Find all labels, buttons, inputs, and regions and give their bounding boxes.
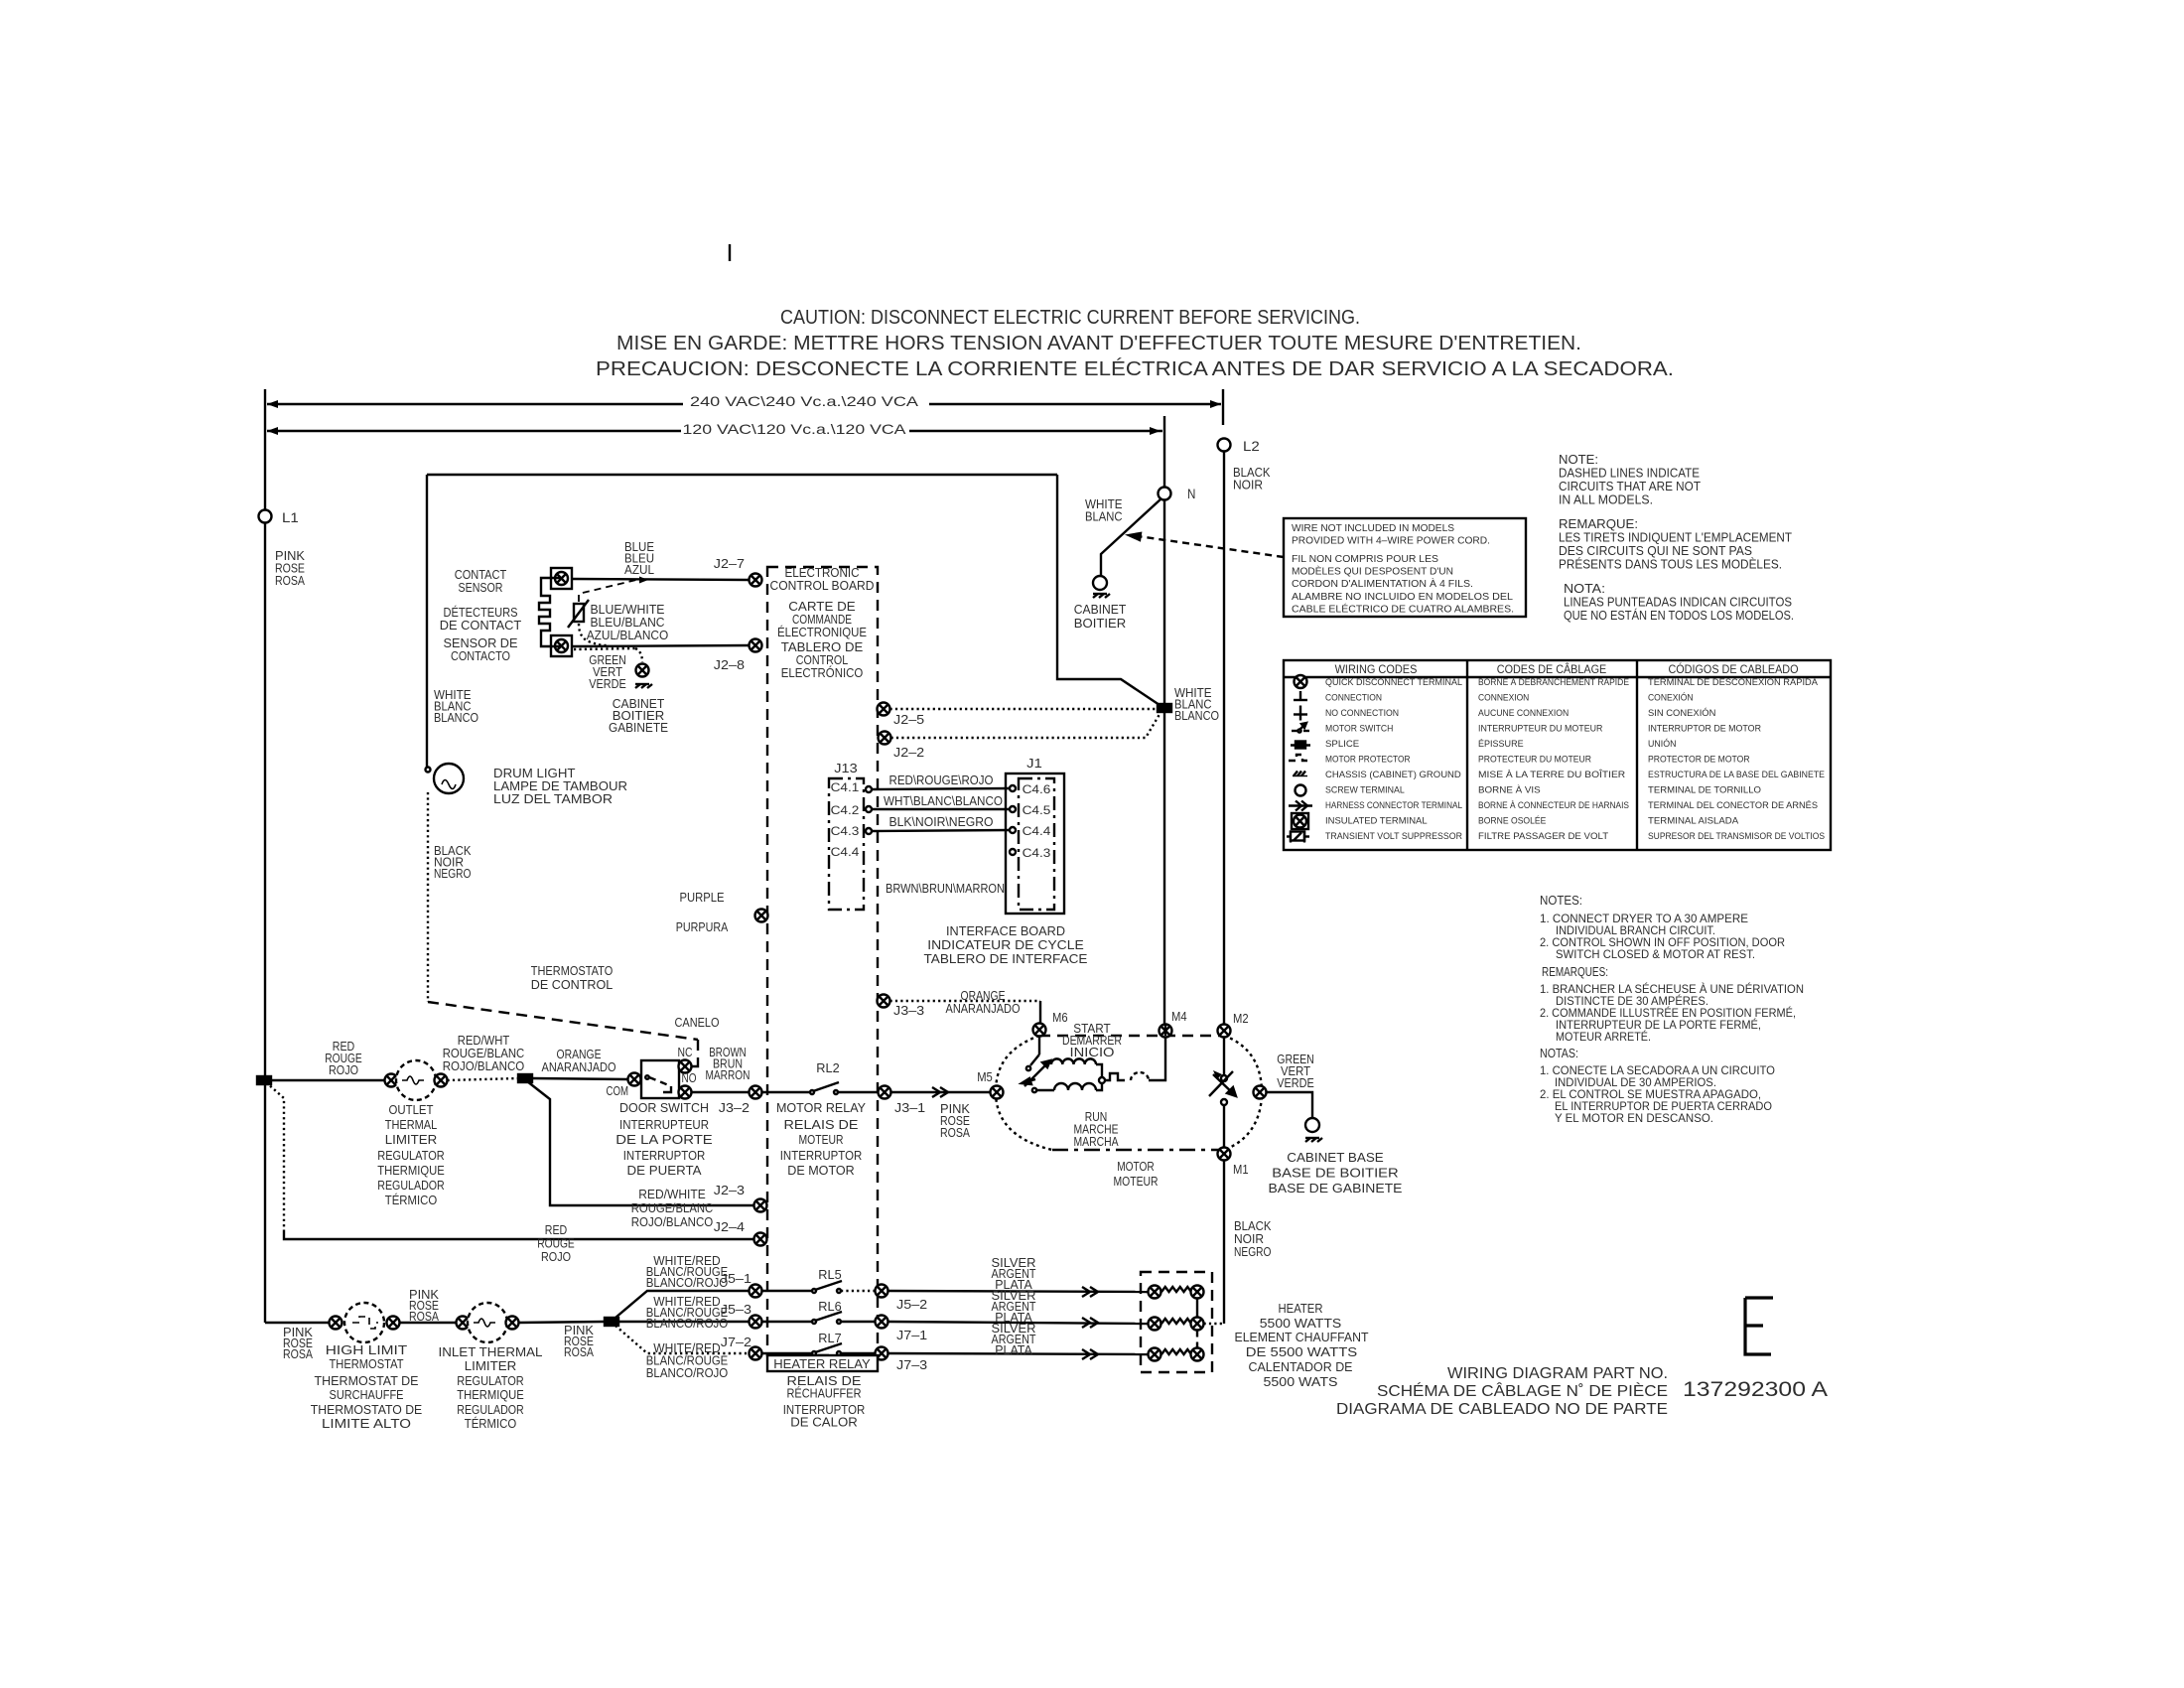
svg-text:BRWN\BRUN\MARRON: BRWN\BRUN\MARRON: [886, 882, 1005, 896]
svg-text:HARNESS CONNECTOR TERMINAL: HARNESS CONNECTOR TERMINAL: [1325, 800, 1462, 811]
terminal heater 2 left: [1149, 1318, 1161, 1331]
table symbol transient volt suppressor: [1287, 831, 1309, 843]
table symbol insulated terminal: [1292, 813, 1308, 829]
svg-text:NC: NC: [678, 1046, 693, 1059]
svg-text:ROJO: ROJO: [329, 1063, 358, 1077]
harness arrow (M5 wire): [932, 1087, 948, 1097]
svg-text:THERMOSTAT DE: THERMOSTAT DE: [315, 1374, 419, 1388]
svg-text:SCHÉMA DE CÂBLAGE N˚ DE P: SCHÉMA DE CÂBLAGE N˚ DE PIÈCE: [1377, 1381, 1668, 1400]
svg-text:ROSA: ROSA: [564, 1345, 595, 1359]
svg-text:MARRON: MARRON: [706, 1068, 751, 1082]
protector coil dashed: [1131, 1072, 1149, 1080]
svg-text:DE CONTACT: DE CONTACT: [440, 619, 522, 633]
svg-text:MOTOR PROTECTOR: MOTOR PROTECTOR: [1325, 755, 1411, 766]
svg-text:DE PUERTA: DE PUERTA: [627, 1164, 703, 1178]
relay RL7: [812, 1343, 842, 1355]
svg-text:RED\ROUGE\ROJO: RED\ROUGE\ROJO: [889, 774, 994, 787]
svg-text:NOIR: NOIR: [1233, 479, 1263, 492]
svg-text:RELAIS DE: RELAIS DE: [784, 1118, 859, 1132]
pin J1-3: [1010, 827, 1016, 833]
arrow on blue wire: [639, 577, 648, 584]
terminal J2-8: [750, 639, 762, 652]
svg-text:MOTEUR: MOTEUR: [799, 1133, 844, 1147]
terminal J2-7: [750, 574, 762, 587]
run contact: [1032, 1088, 1036, 1092]
connector J13 box: [829, 778, 864, 910]
svg-text:PROTECTOR DE MOTOR: PROTECTOR DE MOTOR: [1648, 755, 1750, 766]
svg-text:ROSA: ROSA: [409, 1310, 440, 1324]
svg-text:ROUGE/BLANC: ROUGE/BLANC: [631, 1201, 714, 1215]
terminal J2-4: [754, 1233, 767, 1246]
svg-text:BORNE OSOLÉE: BORNE OSOLÉE: [1478, 816, 1546, 827]
svg-text:PURPLE: PURPLE: [680, 891, 725, 905]
terminal J3-3: [878, 995, 890, 1008]
wire black M1 to heater: [1223, 1160, 1225, 1325]
table symbol screw terminal: [1296, 785, 1306, 796]
wire L1 to HLT: [265, 1322, 330, 1324]
svg-text:C4.2: C4.2: [831, 803, 860, 817]
svg-text:ROUGE: ROUGE: [537, 1237, 575, 1251]
svg-text:TERMINAL DEL CONECTOR DE ARNÉS: TERMINAL DEL CONECTOR DE ARNÉS: [1648, 800, 1818, 811]
svg-text:GABINETE: GABINETE: [609, 721, 668, 735]
svg-text:BLANCO: BLANCO: [434, 711, 478, 725]
svg-text:DRUM LIGHT: DRUM LIGHT: [493, 767, 576, 780]
centrifugal contact bottom: [1221, 1099, 1227, 1105]
wire red dotted from L1 splice: [266, 1082, 284, 1231]
svg-text:HEATER RELAY: HEATER RELAY: [773, 1357, 871, 1371]
terminal N: [1159, 488, 1171, 500]
table symbol chassis ground: [1293, 772, 1307, 776]
svg-text:REMARQUE:: REMARQUE:: [1559, 517, 1638, 531]
svg-text:CONTROL BOARD: CONTROL BOARD: [770, 579, 875, 593]
svg-text:LINEAS PUNTEADAS INDICAN CIRCU: LINEAS PUNTEADAS INDICAN CIRCUITOS: [1564, 596, 1792, 610]
svg-text:C4.6: C4.6: [1023, 782, 1051, 796]
svg-text:DE MOTOR: DE MOTOR: [787, 1164, 855, 1178]
drum light: [434, 764, 464, 793]
svg-text:J3–3: J3–3: [893, 1003, 924, 1018]
svg-text:ELECTRÓNICO: ELECTRÓNICO: [781, 665, 864, 680]
terminal J7-2: [750, 1347, 762, 1360]
svg-text:SWITCH CLOSED & MOTOR AT REST.: SWITCH CLOSED & MOTOR AT REST.: [1556, 947, 1755, 961]
splice white/N junction: [1158, 704, 1171, 712]
wire M2-M1 lower: [1223, 1105, 1225, 1148]
svg-text:INTERRUPTOR: INTERRUPTOR: [623, 1149, 706, 1163]
svg-text:SCREW TERMINAL: SCREW TERMINAL: [1325, 785, 1405, 796]
svg-text:TRANSIENT VOLT SUPPRESSOR: TRANSIENT VOLT SUPPRESSOR: [1325, 831, 1462, 842]
svg-text:J1: J1: [1026, 756, 1042, 771]
terminal heater 1 left: [1149, 1286, 1161, 1299]
svg-text:CAUTION: DISCONNECT ELECTRIC: CAUTION: DISCONNECT ELECTRIC CURRENT BEF…: [780, 307, 1360, 329]
terminal ITL right: [506, 1317, 519, 1330]
svg-text:PROVIDED WITH 4–WIRE POWER COR: PROVIDED WITH 4–WIRE POWER CORD.: [1292, 536, 1490, 547]
wire canelo dashed: [697, 1040, 699, 1064]
svg-text:J3–1: J3–1: [894, 1100, 925, 1115]
svg-text:PRECAUCION: DESCONECTE LA C: PRECAUCION: DESCONECTE LA CORRIENTE ELÉC…: [596, 357, 1674, 380]
svg-text:ÉLECTRONIQUE: ÉLECTRONIQUE: [777, 625, 867, 639]
cabinet screw terminal: [1093, 576, 1107, 590]
svg-text:5500 WATS: 5500 WATS: [1264, 1375, 1338, 1389]
svg-text:M4: M4: [1171, 1009, 1187, 1024]
svg-text:RED/WHITE: RED/WHITE: [638, 1188, 706, 1201]
terminal heater 3 right: [1191, 1348, 1204, 1361]
svg-text:DOOR SWITCH: DOOR SWITCH: [619, 1101, 709, 1115]
wire L1 bottom vertical: [264, 1080, 266, 1323]
splice heater branches: [605, 1318, 618, 1326]
connector J1 inner box: [1019, 778, 1054, 910]
svg-text:THERMIQUE: THERMIQUE: [457, 1388, 524, 1402]
svg-text:REMARQUES:: REMARQUES:: [1542, 965, 1608, 979]
wire heater link 1-2: [1196, 1299, 1198, 1318]
svg-text:CABLE ELÉCTRICO DE CUATRO ALAM: CABLE ELÉCTRICO DE CUATRO ALAMBRES.: [1292, 603, 1514, 616]
svg-text:MOTOR: MOTOR: [1117, 1160, 1155, 1174]
svg-text:NOTAS:: NOTAS:: [1540, 1047, 1578, 1060]
wire N top: [1163, 416, 1165, 488]
svg-text:MOTOR RELAY: MOTOR RELAY: [776, 1101, 867, 1115]
wire orange drop to M6: [1039, 1001, 1041, 1023]
svg-text:INDICATEUR DE CYCLE: INDICATEUR DE CYCLE: [927, 938, 1084, 952]
svg-text:DE CONTROL: DE CONTROL: [531, 978, 614, 992]
svg-text:MARCHA: MARCHA: [1074, 1135, 1120, 1149]
svg-text:N: N: [1187, 486, 1195, 501]
table symbol no connection: [1294, 706, 1307, 721]
wire N vertical: [1163, 500, 1165, 1030]
table symbol harness connector: [1289, 801, 1312, 811]
svg-text:DE 5500 WATTS: DE 5500 WATTS: [1246, 1345, 1358, 1359]
svg-text:NEGRO: NEGRO: [434, 867, 472, 881]
svg-text:ROSA: ROSA: [940, 1126, 971, 1140]
terminal J5-2: [876, 1285, 888, 1298]
svg-text:C4.3: C4.3: [1023, 846, 1051, 860]
svg-text:LUZ DEL TAMBOR: LUZ DEL TAMBOR: [493, 792, 613, 806]
svg-text:C4.3: C4.3: [831, 824, 860, 838]
svg-text:MISE À LA TERRE DU BOÎTIER: MISE À LA TERRE DU BOÎTIER: [1478, 770, 1625, 780]
relay RL2: [810, 1082, 839, 1094]
svg-text:RL2: RL2: [816, 1060, 839, 1075]
svg-text:BLANCO/ROJO: BLANCO/ROJO: [646, 1276, 729, 1290]
pin J1-2: [1010, 806, 1016, 812]
wire heater link 2-3 dashed: [1196, 1331, 1198, 1348]
terminal J7-3: [876, 1347, 888, 1360]
svg-text:M2: M2: [1233, 1011, 1249, 1026]
svg-text:CIRCUITS THAT ARE NOT: CIRCUITS THAT ARE NOT: [1559, 480, 1701, 493]
wire red/wht dotted: [448, 1078, 519, 1080]
svg-text:CONNEXION: CONNEXION: [1478, 693, 1529, 704]
terminal NO: [679, 1086, 692, 1099]
svg-text:SUPRESOR DEL TRANSMISOR DE VOL: SUPRESOR DEL TRANSMISOR DE VOLTIOS: [1648, 831, 1825, 842]
svg-text:LIMITE ALTO: LIMITE ALTO: [322, 1417, 411, 1431]
centrifugal contact top: [1221, 1075, 1227, 1081]
svg-text:ROUGE/BLANC: ROUGE/BLANC: [443, 1047, 525, 1060]
splice L1 red junction: [257, 1076, 271, 1084]
120 VAC dimension line: [267, 427, 1162, 435]
svg-text:INTERRUPTOR DE MOTOR: INTERRUPTOR DE MOTOR: [1648, 724, 1761, 735]
terminal J2-3: [754, 1199, 767, 1212]
svg-text:BORNE À VIS: BORNE À VIS: [1478, 785, 1541, 796]
svg-text:ORANGE: ORANGE: [557, 1048, 602, 1061]
terminal J7-1: [876, 1316, 888, 1329]
wire j3-2 to rl2: [762, 1091, 811, 1093]
harness arrow (J5-2 wire): [1082, 1287, 1098, 1297]
svg-text:J7–3: J7–3: [896, 1357, 927, 1372]
table symbol connection: [1294, 691, 1307, 700]
svg-text:HEATER: HEATER: [1279, 1302, 1323, 1316]
connector J1 outer box: [1006, 774, 1064, 914]
svg-text:ROJO: ROJO: [541, 1250, 571, 1264]
svg-text:CODES DE CÂBLAGE: CODES DE CÂBLAGE: [1497, 663, 1607, 676]
terminal L1: [259, 510, 272, 523]
svg-text:TABLERO DE: TABLERO DE: [781, 640, 864, 654]
svg-text:AZUL: AZUL: [624, 563, 654, 577]
motor outline right arc: [1224, 1036, 1262, 1150]
svg-text:DE LA PORTE: DE LA PORTE: [615, 1133, 713, 1147]
svg-text:QUE NO ESTÁN EN TODOS LOS MODE: QUE NO ESTÁN EN TODOS LOS MODELOS.: [1564, 608, 1794, 623]
wire heater to black dotted: [1204, 1323, 1225, 1325]
svg-text:LIMITER: LIMITER: [385, 1133, 438, 1147]
svg-text:J5–2: J5–2: [896, 1297, 927, 1312]
svg-text:NO CONNECTION: NO CONNECTION: [1325, 708, 1399, 719]
wire com branch to J2-3: [527, 1081, 754, 1205]
svg-text:CARTE DE: CARTE DE: [788, 600, 856, 614]
svg-text:INICIO: INICIO: [1070, 1046, 1115, 1059]
wire j5-1 to rl5: [762, 1290, 813, 1292]
wire branch J5-1: [615, 1291, 750, 1318]
svg-text:C4.4: C4.4: [1023, 824, 1051, 838]
wire orange to COM: [532, 1078, 628, 1079]
svg-text:ALAMBRE NO INCLUIDO EN MODELOS: ALAMBRE NO INCLUIDO EN MODELOS DEL: [1292, 592, 1513, 603]
svg-text:INTERRUPTEUR: INTERRUPTEUR: [619, 1118, 709, 1132]
start switch wiper arrow: [1024, 1060, 1050, 1086]
wiring codes table frame: [1284, 660, 1831, 850]
svg-text:ROJO/BLANCO: ROJO/BLANCO: [631, 1215, 714, 1229]
svg-text:CABINET BASE: CABINET BASE: [1287, 1151, 1384, 1165]
winding link: [1096, 1064, 1102, 1078]
wire j2-8: [573, 645, 750, 646]
terminal M5: [991, 1086, 1004, 1099]
svg-text:BLANCO/ROJO: BLANCO/ROJO: [646, 1366, 729, 1380]
pin J13-2: [866, 806, 872, 812]
relay RL5: [812, 1281, 842, 1293]
cabinet base ground: [1305, 1138, 1322, 1142]
centrifugal wiper arrows: [1209, 1070, 1236, 1096]
terminal OTL left: [385, 1074, 398, 1087]
thermistor: [568, 600, 589, 628]
svg-text:TÉRMICO: TÉRMICO: [465, 1416, 517, 1431]
svg-text:CHASSIS (CABINET) GROUND: CHASSIS (CABINET) GROUND: [1325, 770, 1461, 780]
terminal heater 2 right: [1191, 1318, 1204, 1331]
svg-text:C4.4: C4.4: [831, 845, 860, 859]
svg-text:J2–5: J2–5: [893, 712, 924, 727]
svg-text:THERMOSTATO DE: THERMOSTATO DE: [311, 1403, 423, 1417]
start switch contact: [1026, 1055, 1039, 1070]
svg-text:MISE EN GARDE: METTRE HORS: MISE EN GARDE: METTRE HORS TENSION AVANT…: [616, 333, 1581, 354]
svg-text:ANARANJADO: ANARANJADO: [542, 1060, 616, 1074]
svg-text:BLANC: BLANC: [1085, 510, 1123, 524]
wire white rect left edge: [426, 475, 428, 767]
svg-text:PRÉSENTS DANS TOUS LES MODÈLES: PRÉSENTS DANS TOUS LES MODÈLES.: [1559, 557, 1782, 572]
wire green drop: [635, 648, 642, 662]
motor outline left arc: [996, 1036, 1052, 1150]
wire orange dotted: [890, 1000, 1041, 1002]
svg-text:VERDE: VERDE: [589, 677, 626, 691]
electronic control board box: [767, 567, 878, 1355]
svg-text:RED/WHT: RED/WHT: [458, 1034, 510, 1048]
svg-text:J2–7: J2–7: [714, 556, 745, 571]
svg-text:J13: J13: [834, 761, 857, 775]
wire blk j13-j1: [872, 830, 1010, 831]
svg-text:ESTRUCTURA DE LA BASE DEL GABI: ESTRUCTURA DE LA BASE DEL GABINETE: [1648, 770, 1825, 780]
terminal L2: [1218, 439, 1231, 452]
svg-text:AZUL/BLANCO: AZUL/BLANCO: [587, 629, 669, 642]
svg-text:240 VAC\240 Vc.a.\240 VCA: 240 VAC\240 Vc.a.\240 VCA: [690, 393, 919, 409]
pin J13-3: [866, 828, 872, 834]
wire branch J5-3: [618, 1321, 750, 1323]
wire M4 up: [1164, 1025, 1166, 1037]
svg-text:NOIR: NOIR: [1234, 1232, 1264, 1246]
svg-text:DES CIRCUITS QUI NE SONT PAS: DES CIRCUITS QUI NE SONT PAS: [1559, 544, 1752, 558]
svg-text:HIGH LIMIT: HIGH LIMIT: [326, 1343, 408, 1357]
wire j2-2 dotted: [891, 711, 1162, 738]
wire j3-1 to M5: [891, 1091, 991, 1093]
svg-text:REGULATOR: REGULATOR: [457, 1374, 524, 1388]
svg-text:TERMINAL AISLADA: TERMINAL AISLADA: [1648, 816, 1739, 827]
run winding: [1036, 1089, 1054, 1091]
table symbol splice: [1291, 742, 1310, 749]
svg-text:ORANGE: ORANGE: [961, 989, 1006, 1003]
terminal J3-2: [750, 1086, 762, 1099]
table symbol motor protector: [1289, 755, 1310, 761]
wire j2-5 dotted: [890, 708, 1160, 710]
insulated terminal (bottom): [551, 635, 572, 656]
wire wht j13-j1: [872, 808, 1010, 810]
svg-text:CONTROL: CONTROL: [796, 653, 849, 667]
svg-text:RL5: RL5: [818, 1267, 841, 1282]
svg-text:J3–2: J3–2: [719, 1100, 750, 1115]
svg-text:UNIÓN: UNIÓN: [1648, 739, 1677, 750]
svg-text:BLACK: BLACK: [1234, 1219, 1272, 1233]
svg-text:LIMITER: LIMITER: [465, 1359, 517, 1373]
svg-text:COMMANDE: COMMANDE: [792, 613, 852, 627]
svg-text:INLET THERMAL: INLET THERMAL: [439, 1345, 543, 1359]
heater relay box: [767, 1355, 878, 1371]
svg-text:ANARANJADO: ANARANJADO: [946, 1002, 1021, 1016]
wire blue: [573, 579, 750, 580]
wire HLT to ITL: [400, 1322, 457, 1324]
inlet thermal limiter: [468, 1303, 507, 1342]
wire thermistor dashed to blue: [579, 579, 640, 602]
cabinet base screw: [1305, 1118, 1319, 1132]
svg-text:FIL NON COMPRIS POUR LES: FIL NON COMPRIS POUR LES: [1292, 554, 1438, 565]
relay RL6: [812, 1312, 842, 1324]
svg-text:WIRING DIAGRAM PART NO.: WIRING DIAGRAM PART NO.: [1447, 1365, 1668, 1382]
wire j5-3 to rl6: [762, 1321, 813, 1323]
door switch box: [641, 1060, 679, 1098]
terminal ITL left: [457, 1317, 470, 1330]
svg-text:NOTA:: NOTA:: [1564, 582, 1605, 596]
wire J7-1 to heater: [888, 1322, 1149, 1324]
svg-text:NOTE:: NOTE:: [1559, 453, 1598, 467]
svg-text:M1: M1: [1233, 1162, 1249, 1177]
svg-text:CALENTADOR DE: CALENTADOR DE: [1249, 1360, 1353, 1374]
table symbol quick disconnect: [1295, 675, 1307, 688]
svg-text:DÉTECTEURS: DÉTECTEURS: [444, 605, 518, 620]
svg-text:DASHED LINES INDICATE: DASHED LINES INDICATE: [1559, 467, 1700, 481]
svg-text:FILTRE PASSAGER DE VOLT: FILTRE PASSAGER DE VOLT: [1478, 831, 1608, 842]
svg-text:IN ALL MODELS.: IN ALL MODELS.: [1559, 493, 1653, 507]
wire M2 drop: [1223, 1038, 1225, 1076]
wire white diagonal to cabinet: [1101, 498, 1161, 576]
wire L2 vertical: [1223, 452, 1225, 1030]
svg-text:J2–8: J2–8: [714, 657, 745, 672]
svg-text:ROSA: ROSA: [275, 574, 306, 588]
svg-text:DIAGRAMA DE CABLEADO NO DE: DIAGRAMA DE CABLEADO NO DE PARTE: [1336, 1401, 1668, 1418]
wire branch J7-2 dotted: [615, 1326, 750, 1353]
insulated terminal (top): [551, 568, 572, 589]
svg-text:CONTACTO: CONTACTO: [451, 649, 510, 663]
svg-text:ÉPISSURE: ÉPISSURE: [1478, 739, 1524, 750]
terminal HLT left: [330, 1317, 342, 1330]
terminal green cabinet: [636, 664, 649, 677]
svg-text:INTERRUPTOR: INTERRUPTOR: [780, 1149, 863, 1163]
terminal M1: [1218, 1148, 1231, 1161]
motor outline bottom: [1052, 1149, 1224, 1151]
svg-text:TERMINAL DE TORNILLO: TERMINAL DE TORNILLO: [1648, 785, 1761, 796]
wire-not-included box: [1284, 518, 1526, 617]
svg-text:WIRING CODES: WIRING CODES: [1335, 664, 1418, 676]
svg-text:VERDE: VERDE: [1277, 1076, 1314, 1090]
svg-text:CÓDIGOS DE CABLEADO: CÓDIGOS DE CABLEADO: [1668, 663, 1798, 676]
splice orange: [518, 1074, 532, 1082]
run winding end: [1096, 1082, 1102, 1090]
wire green dotted overlay: [574, 648, 635, 649]
svg-text:BLUE/WHITE: BLUE/WHITE: [591, 603, 665, 617]
svg-text:OUTLET: OUTLET: [389, 1103, 434, 1117]
svg-text:SENSOR: SENSOR: [459, 581, 503, 595]
svg-text:C4.5: C4.5: [1023, 803, 1051, 817]
wire j7-2 to rl7: [762, 1352, 813, 1354]
terminal COM: [628, 1073, 641, 1086]
motor outline top: [1039, 1035, 1224, 1037]
wire red to OTL: [271, 1079, 385, 1081]
svg-text:RED: RED: [545, 1223, 568, 1237]
terminal J5-1: [750, 1285, 762, 1298]
svg-text:NOTES:: NOTES:: [1540, 894, 1582, 908]
svg-text:5500 WATTS: 5500 WATTS: [1260, 1317, 1342, 1331]
winding junction pin: [1099, 1077, 1105, 1083]
wire white rectangle top: [427, 474, 1057, 476]
svg-text:CONEXIÓN: CONEXIÓN: [1648, 693, 1694, 704]
wire J5-2 to heater: [888, 1291, 1149, 1292]
ground cabinet (sensor): [635, 684, 652, 688]
svg-text:ROSA: ROSA: [283, 1347, 314, 1361]
terminal J2-2: [879, 732, 891, 745]
motor protector: [1105, 1073, 1125, 1080]
svg-text:WHT\BLANC\BLANCO: WHT\BLANC\BLANCO: [884, 794, 1003, 808]
terminal J2-5: [878, 703, 890, 716]
svg-text:L1: L1: [282, 509, 299, 525]
svg-text:NO: NO: [682, 1071, 697, 1085]
revision letter E: [1745, 1298, 1773, 1354]
wire green: [1267, 1092, 1313, 1118]
svg-text:MOTOR SWITCH: MOTOR SWITCH: [1325, 724, 1394, 735]
svg-text:INTERRUPTEUR DU MOTEUR: INTERRUPTEUR DU MOTEUR: [1478, 724, 1603, 735]
svg-text:137292300 A: 137292300 A: [1683, 1378, 1828, 1401]
svg-text:J2–4: J2–4: [714, 1219, 745, 1234]
svg-text:BORNE À DÉBRANCHEMENT RAPIDE: BORNE À DÉBRANCHEMENT RAPIDE: [1478, 677, 1629, 688]
svg-text:CANELO: CANELO: [675, 1016, 720, 1030]
wire red j13-j1: [872, 788, 1010, 789]
wire NO to J3-2: [692, 1091, 750, 1093]
door switch blade: [645, 1075, 671, 1092]
